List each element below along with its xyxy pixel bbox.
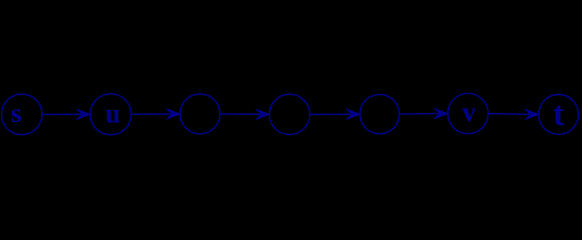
edge s-u arrowhead <box>76 109 90 120</box>
svg-text:v: v <box>462 97 476 127</box>
edge b3-v arrowhead <box>434 108 448 119</box>
node u circle <box>90 94 131 135</box>
edge v-t arrowhead <box>525 109 539 120</box>
svg-text:t: t <box>553 96 565 133</box>
node (blank 2) circle <box>269 94 309 134</box>
node (blank 1) circle <box>180 94 220 134</box>
edge b1-b2 arrowhead <box>256 109 270 120</box>
node t circle <box>539 95 579 135</box>
node v circle <box>448 93 488 133</box>
edge s->u wire <box>42 113 81 115</box>
edge blank3->v wire <box>399 113 439 116</box>
edge blank1->blank2 wire <box>220 113 261 115</box>
svg-text:s: s <box>11 98 22 128</box>
edge u->blank1 wire <box>131 113 171 115</box>
node (blank 3) circle <box>360 94 399 133</box>
edge v->t wire <box>488 113 530 116</box>
edge b2-b3 arrowhead <box>346 109 360 120</box>
edge u-b1 arrowhead <box>166 109 180 120</box>
svg-text:u: u <box>105 99 120 129</box>
edge blank2->blank3 wire <box>310 113 351 115</box>
node s circle <box>2 94 43 135</box>
